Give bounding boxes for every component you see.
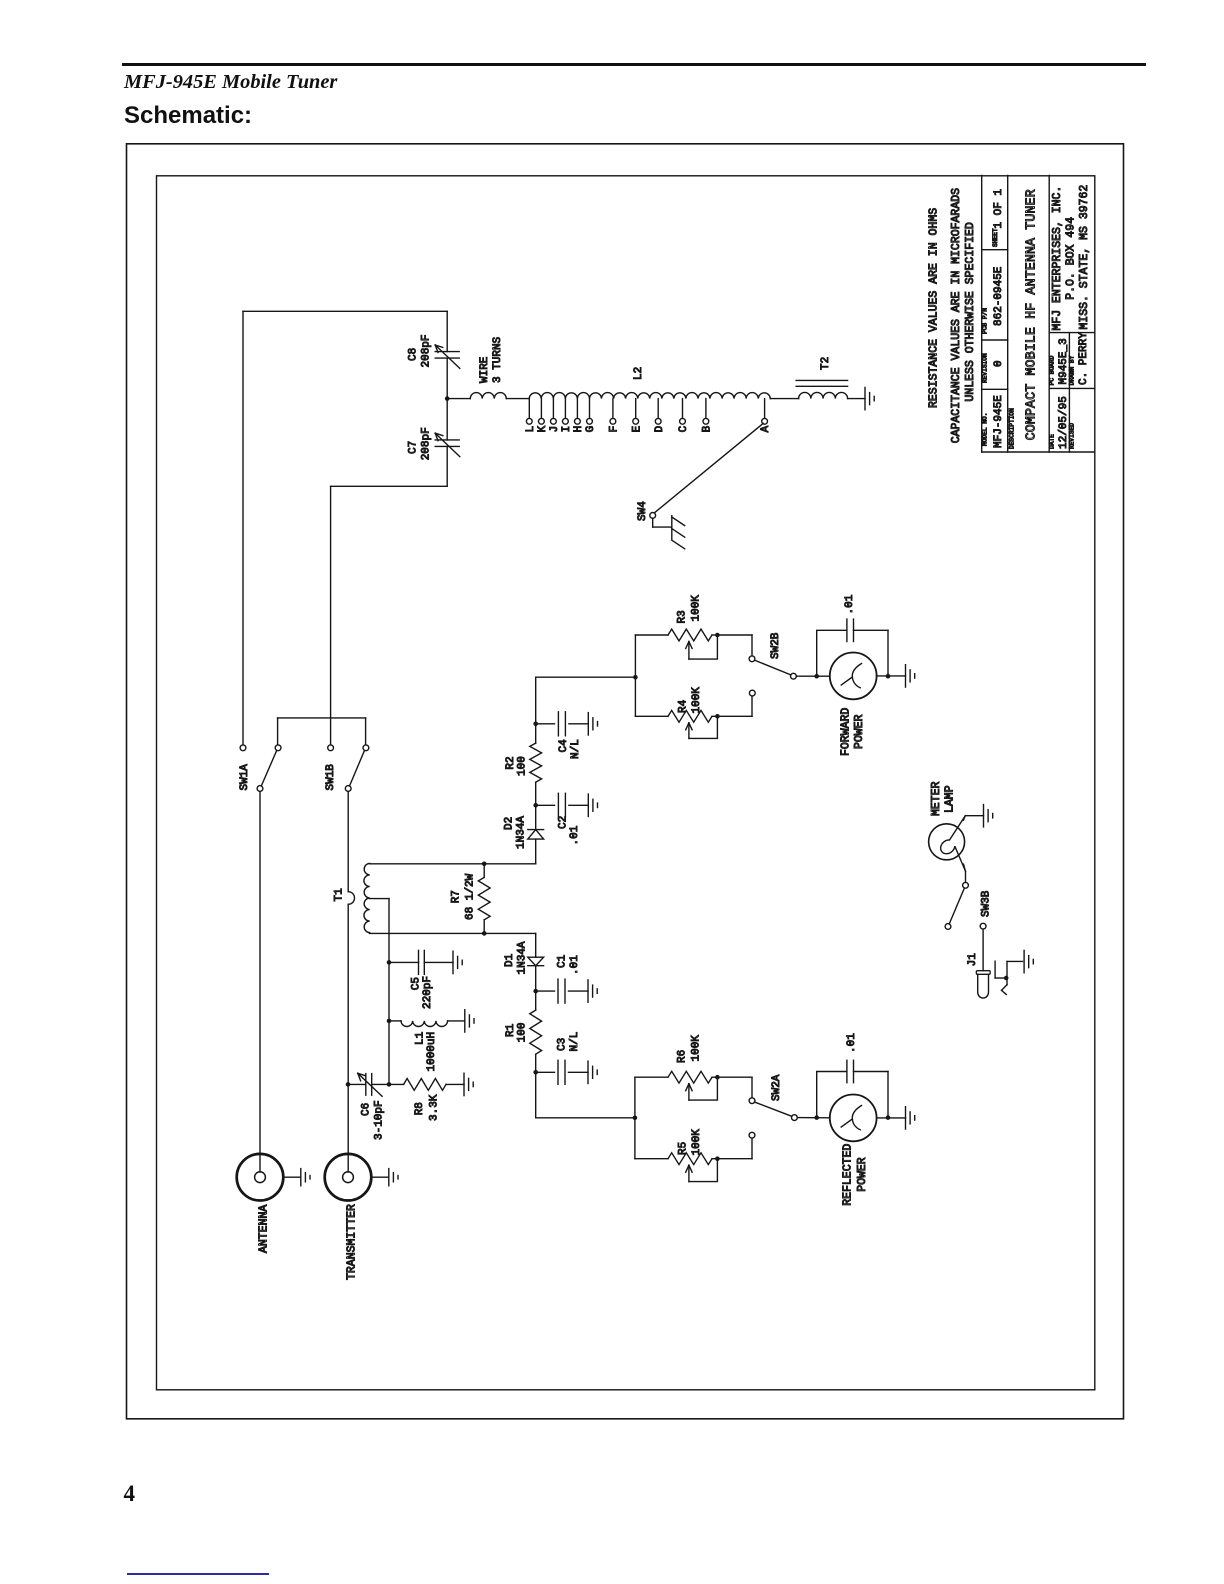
svg-text:.01: .01 [846,1033,858,1053]
svg-text:3-10pF: 3-10pF [374,1100,386,1140]
svg-text:CAPACITANCE VALUES ARE IN MICR: CAPACITANCE VALUES ARE IN MICROFARADS [950,188,963,443]
svg-text:J1: J1 [967,953,979,967]
svg-text:L1: L1 [415,1031,427,1045]
svg-text:862-0945E: 862-0945E [993,266,1005,326]
svg-text:3.3K: 3.3K [429,1094,441,1121]
svg-text:FORWARD: FORWARD [839,708,852,756]
svg-text:SW4: SW4 [637,501,649,521]
svg-text:I: I [561,426,573,433]
svg-text:C. PERRY: C. PERRY [1078,332,1090,385]
svg-text:SW3B: SW3B [981,890,993,917]
svg-text:DATE: DATE [1049,434,1056,449]
svg-text:TRANSMITTER: TRANSMITTER [346,1204,359,1280]
svg-text:RESISTANCE VALUES ARE IN OHMS: RESISTANCE VALUES ARE IN OHMS [928,208,941,408]
svg-text:POWER: POWER [856,1157,869,1192]
svg-text:MISS. STATE, MS 39762: MISS. STATE, MS 39762 [1078,185,1091,330]
svg-text:C7: C7 [408,441,420,454]
svg-text:K: K [537,425,549,432]
svg-text:1N34A: 1N34A [517,941,529,974]
svg-text:DESCRIPTION: DESCRIPTION [1009,408,1016,449]
svg-text:L2: L2 [633,367,645,380]
svg-text:R7: R7 [450,890,462,903]
svg-text:D2: D2 [503,817,515,830]
svg-text:REVISED: REVISED [1069,423,1076,449]
svg-text:R6: R6 [677,1050,689,1063]
svg-text:208pF: 208pF [420,427,432,460]
svg-text:H: H [573,426,585,433]
svg-text:1 OF 1: 1 OF 1 [993,189,1005,229]
svg-text:R2: R2 [505,756,517,769]
svg-text:C: C [678,425,690,432]
svg-text:100K: 100K [690,595,702,622]
svg-text:SHEET: SHEET [992,228,999,247]
svg-text:.01: .01 [569,825,581,845]
svg-text:C8: C8 [408,348,420,361]
svg-text:R4: R4 [677,699,689,713]
svg-text:DRAWN BY: DRAWN BY [1069,355,1076,385]
svg-text:REVISION: REVISION [981,353,988,383]
svg-text:220pF: 220pF [422,976,434,1009]
svg-text:R3: R3 [677,610,689,623]
svg-text:100: 100 [517,1022,529,1042]
svg-text:T1: T1 [334,888,346,902]
svg-text:SW1B: SW1B [325,764,337,791]
svg-text:R8: R8 [414,1102,426,1115]
svg-text:REFLECTED: REFLECTED [841,1144,854,1206]
svg-text:100K: 100K [691,1129,703,1156]
svg-text:SW2A: SW2A [771,1074,783,1101]
svg-text:3 TURNS: 3 TURNS [492,336,504,383]
svg-text:ANTENNA: ANTENNA [258,1205,271,1253]
svg-text:R1: R1 [505,1023,517,1037]
svg-text:G: G [585,426,597,433]
svg-text:D: D [654,425,666,432]
svg-text:N/L: N/L [569,1032,581,1052]
svg-text:J: J [549,426,561,433]
svg-text:C6: C6 [360,1103,372,1116]
svg-text:LAMP: LAMP [943,785,956,813]
svg-text:METER: METER [930,781,943,816]
svg-text:COMPACT MOBILE HF ANTENNA TUNE: COMPACT MOBILE HF ANTENNA TUNER [1025,189,1040,440]
svg-text:T2: T2 [820,357,832,370]
svg-text:SW1A: SW1A [239,764,251,791]
svg-text:E: E [631,425,643,432]
svg-text:PC BOARD: PC BOARD [1049,355,1056,385]
svg-text:.01: .01 [569,955,581,975]
svg-text:C3: C3 [557,1038,569,1051]
svg-text:MFJ ENTERPRISES, INC.: MFJ ENTERPRISES, INC. [1051,186,1064,331]
svg-text:C4: C4 [558,739,570,753]
svg-text:100K: 100K [691,687,703,714]
svg-text:A: A [760,425,772,432]
svg-text:MODEL NO.: MODEL NO. [981,413,988,446]
svg-text:C5: C5 [410,977,422,990]
svg-text:MFJ-945E: MFJ-945E [993,395,1005,448]
svg-text:100K: 100K [690,1035,702,1062]
svg-text:100: 100 [517,756,529,776]
svg-text:0: 0 [993,360,1005,367]
svg-text:UNLESS OTHERWISE SPECIFIED: UNLESS OTHERWISE SPECIFIED [964,222,977,402]
svg-text:N/L: N/L [570,739,582,759]
svg-text:C2: C2 [558,816,570,829]
svg-text:R5: R5 [677,1142,689,1155]
svg-text:L: L [525,426,537,433]
svg-text:D1: D1 [504,953,516,967]
svg-text:F: F [609,426,621,433]
svg-text:C1: C1 [557,954,569,968]
svg-text:WIRE: WIRE [479,356,491,383]
svg-text:1000uH: 1000uH [426,1032,438,1072]
svg-text:208pF: 208pF [420,334,432,367]
svg-text:SW2B: SW2B [770,632,782,659]
svg-text:PCB P/N: PCB P/N [981,308,988,334]
svg-text:68 1/2W: 68 1/2W [465,873,477,920]
svg-text:P.O. BOX 494: P.O. BOX 494 [1065,217,1078,300]
svg-text:1N34A: 1N34A [516,816,528,849]
svg-text:POWER: POWER [853,714,866,749]
svg-text:.01: .01 [844,594,856,614]
svg-text:B: B [702,425,714,432]
